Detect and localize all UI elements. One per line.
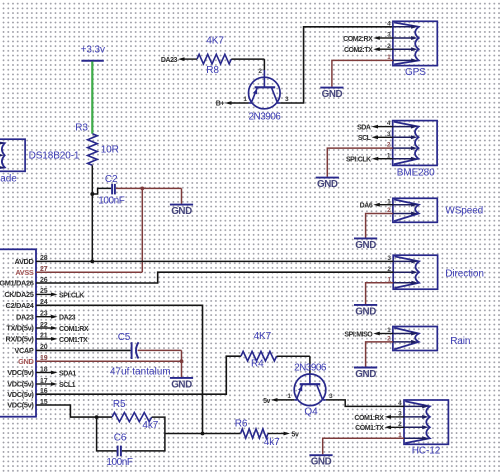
svg-text:VDC(5v): VDC(5v): [7, 368, 34, 377]
svg-text:Q4: Q4: [304, 407, 318, 418]
svg-text:10R: 10R: [101, 145, 119, 156]
svg-text:GND: GND: [355, 240, 376, 251]
svg-text:GND: GND: [311, 457, 332, 468]
svg-text:SPI:MISO: SPI:MISO: [344, 331, 373, 338]
svg-text:GM1/DA26: GM1/DA26: [0, 279, 34, 288]
svg-text:COM1:TX: COM1:TX: [355, 425, 384, 432]
svg-text:4: 4: [387, 20, 391, 27]
svg-text:3: 3: [329, 393, 333, 400]
svg-text:COM2:TX: COM2:TX: [344, 47, 373, 54]
svg-text:VCAP: VCAP: [14, 346, 34, 355]
svg-text:Rain: Rain: [450, 336, 470, 347]
svg-text:R6: R6: [235, 418, 248, 429]
svg-text:VDC(5v): VDC(5v): [7, 380, 34, 389]
svg-text:SDA: SDA: [357, 125, 371, 132]
svg-text:RX/D(5v): RX/D(5v): [5, 335, 34, 344]
svg-text:100nF: 100nF: [98, 196, 124, 207]
svg-text:1: 1: [243, 96, 247, 103]
svg-text:2: 2: [258, 68, 262, 75]
svg-text:BME280: BME280: [397, 168, 435, 179]
svg-text:GND: GND: [18, 357, 34, 366]
svg-text:HC-12: HC-12: [412, 446, 441, 457]
svg-text:2N3906: 2N3906: [249, 111, 282, 122]
svg-text:VDC(5v): VDC(5v): [7, 401, 34, 410]
svg-text:DA23: DA23: [16, 312, 34, 321]
svg-text:COM1:RX: COM1:RX: [354, 415, 384, 422]
svg-text:R4: R4: [251, 358, 264, 369]
svg-text:GND: GND: [171, 379, 192, 390]
svg-text:R8: R8: [206, 65, 219, 76]
svg-text:AVDD: AVDD: [15, 257, 35, 266]
svg-text:SCL1: SCL1: [59, 382, 76, 389]
svg-text:SCL: SCL: [358, 135, 372, 142]
svg-text:GND: GND: [171, 206, 192, 217]
svg-text:WSpeed: WSpeed: [445, 206, 483, 217]
svg-text:GND: GND: [322, 89, 343, 100]
svg-text:VDC(5v): VDC(5v): [7, 390, 34, 399]
svg-text:4k7: 4k7: [142, 420, 158, 431]
svg-text:scade: scade: [0, 174, 17, 185]
svg-text:4K7: 4K7: [206, 35, 224, 46]
svg-text:DS18B20-1: DS18B20-1: [29, 150, 80, 161]
svg-text:GND: GND: [317, 179, 338, 190]
svg-text:GND: GND: [355, 369, 376, 380]
svg-text:COM1:RX: COM1:RX: [59, 326, 89, 333]
svg-text:+3.3v: +3.3v: [81, 45, 105, 56]
svg-text:C2/DA24: C2/DA24: [6, 301, 35, 310]
svg-text:SPI:CLK: SPI:CLK: [346, 157, 371, 164]
svg-text:C2: C2: [105, 174, 118, 185]
svg-text:2N3906: 2N3906: [294, 362, 327, 373]
svg-text:R5: R5: [113, 399, 126, 410]
svg-text:100nF: 100nF: [106, 457, 132, 468]
svg-text:TX/D(5v): TX/D(5v): [6, 324, 34, 333]
svg-text:SDA1: SDA1: [59, 370, 76, 377]
svg-text:AVSS: AVSS: [15, 268, 34, 277]
svg-text:C6: C6: [114, 432, 127, 443]
svg-text:DA23: DA23: [59, 315, 76, 322]
svg-text:COM1:TX: COM1:TX: [59, 337, 88, 344]
svg-text:GPS: GPS: [405, 67, 426, 78]
svg-text:47uf tantalum: 47uf tantalum: [110, 366, 171, 377]
svg-text:3: 3: [285, 96, 289, 103]
svg-text:1: 1: [287, 393, 291, 400]
svg-text:4K7: 4K7: [254, 331, 272, 342]
svg-text:CK/DA25: CK/DA25: [4, 290, 33, 299]
svg-text:COM2:RX: COM2:RX: [343, 36, 373, 43]
svg-text:5v: 5v: [263, 398, 270, 405]
svg-text:DA23: DA23: [161, 57, 178, 64]
svg-text:5v: 5v: [292, 431, 299, 438]
svg-text:GND: GND: [355, 306, 376, 317]
svg-text:4k7: 4k7: [264, 437, 280, 448]
svg-text:DA6: DA6: [360, 203, 373, 210]
svg-text:Direction: Direction: [445, 269, 484, 280]
svg-text:B+: B+: [216, 100, 225, 107]
svg-text:R3: R3: [75, 123, 88, 134]
svg-text:C5: C5: [118, 332, 131, 343]
svg-text:SPI:CLK: SPI:CLK: [59, 292, 84, 299]
